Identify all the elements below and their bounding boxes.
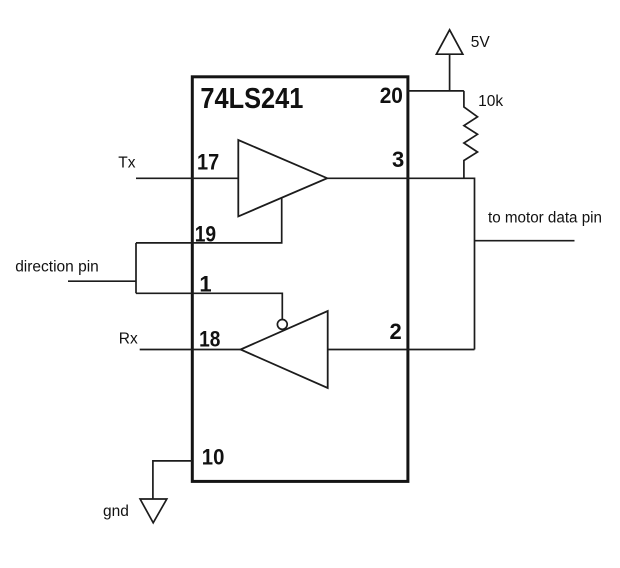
svg-text:10k: 10k [478, 93, 503, 110]
svg-text:20: 20 [380, 83, 403, 108]
wire direction pin lead [68, 280, 136, 282]
ground [140, 499, 167, 523]
wire pin 10 lead [153, 461, 192, 499]
svg-text:to motor data pin: to motor data pin [488, 210, 602, 227]
svg-text:3: 3 [392, 147, 404, 172]
wire Rx lead to buffer B output [140, 349, 241, 351]
wire to motor data pin stub [475, 240, 575, 242]
svg-text:2: 2 [390, 319, 402, 344]
svg-text:5V: 5V [471, 34, 491, 51]
wire 5V lead [449, 54, 451, 91]
wire pin 19 enable [136, 198, 282, 243]
svg-text:direction pin: direction pin [15, 259, 99, 276]
wire pin 2 to right vertical [328, 349, 475, 351]
buffer B (Rx path, pointing left) [241, 311, 328, 388]
wire pin 1 enable to bubble [136, 293, 282, 319]
wire pin 20 to resistor top [407, 90, 464, 92]
svg-text:Tx: Tx [118, 154, 135, 171]
svg-text:Rx: Rx [119, 331, 138, 348]
5V supply symbol [436, 30, 462, 54]
svg-text:17: 17 [197, 149, 219, 174]
op-amp style buffer A (non-inverting, Tx path) [238, 140, 327, 216]
svg-text:74LS241: 74LS241 [200, 83, 303, 115]
wire vertical connector at direction pin [135, 243, 137, 293]
inversion bubble on buffer B enable [277, 320, 287, 330]
svg-text:18: 18 [199, 327, 220, 352]
wire Tx to buffer A input [136, 177, 238, 179]
resistor R1 10k [464, 91, 478, 178]
IC U1 74LS241 body [192, 77, 408, 482]
svg-text:10: 10 [202, 445, 225, 470]
wire buffer A output / pin 3 to right vertical [327, 178, 474, 349]
svg-text:gnd: gnd [103, 503, 129, 520]
